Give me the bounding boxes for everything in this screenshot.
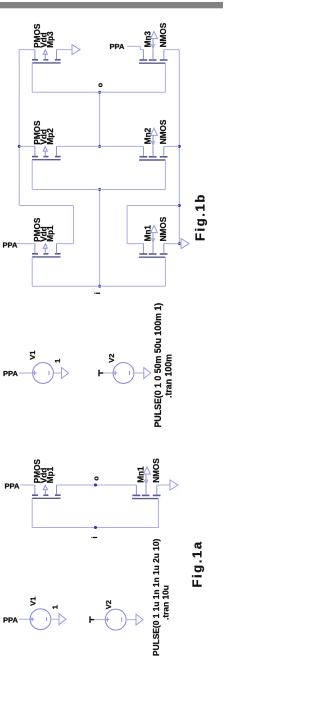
- svg-text:.tran 100m: .tran 100m: [163, 354, 173, 398]
- svg-text:PPA: PPA: [110, 42, 125, 51]
- svg-text:Mn3: Mn3: [143, 31, 152, 48]
- svg-text:PULSE(0 1 0 50m 50u 100m 1): PULSE(0 1 0 50m 50u 100m 1): [153, 303, 163, 428]
- svg-text:NMOS: NMOS: [159, 119, 168, 144]
- svg-text:Mp2: Mp2: [46, 128, 55, 145]
- svg-text:PULSE(0 1 1u 1n 1n 1u 2u 10): PULSE(0 1 1u 1n 1n 1u 2u 10): [151, 539, 161, 656]
- svg-text:PPA: PPA: [3, 369, 18, 378]
- svg-text:1: 1: [51, 605, 60, 609]
- svg-text:o: o: [92, 476, 101, 481]
- svg-text:1: 1: [53, 359, 62, 363]
- svg-text:Mn1: Mn1: [143, 225, 152, 242]
- svg-text:V2: V2: [104, 600, 113, 609]
- svg-text:Mn1: Mn1: [136, 466, 145, 483]
- svg-text:Mp1: Mp1: [46, 466, 55, 483]
- svg-text:i: i: [95, 292, 102, 294]
- svg-text:V1: V1: [28, 351, 37, 360]
- svg-text:.tran 10u: .tran 10u: [161, 585, 171, 620]
- svg-text:PPA: PPA: [5, 482, 20, 491]
- svg-text:i: i: [92, 537, 99, 539]
- svg-text:o: o: [97, 83, 104, 87]
- svg-text:NMOS: NMOS: [159, 22, 168, 47]
- svg-text:NMOS: NMOS: [152, 458, 161, 483]
- svg-text:V2: V2: [107, 354, 116, 363]
- svg-text:Mp1: Mp1: [46, 225, 55, 242]
- svg-text:Mn2: Mn2: [143, 127, 152, 144]
- svg-text:PPA: PPA: [3, 615, 18, 624]
- svg-text:V1: V1: [29, 597, 38, 606]
- svg-text:NMOS: NMOS: [159, 216, 168, 241]
- svg-text:Fig.1b: Fig.1b: [192, 193, 207, 241]
- svg-text:Mp3: Mp3: [46, 31, 55, 48]
- svg-text:Fig.1a: Fig.1a: [190, 540, 205, 587]
- svg-text:PPA: PPA: [3, 241, 18, 250]
